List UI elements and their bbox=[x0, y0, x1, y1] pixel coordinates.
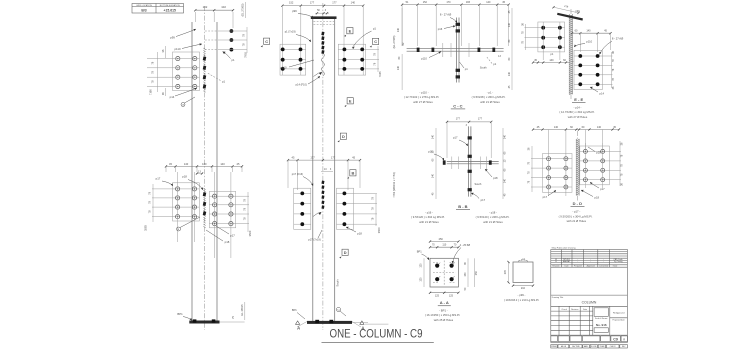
svg-text:177: 177 bbox=[478, 118, 483, 121]
svg-text:p17: p17 bbox=[481, 198, 486, 202]
svg-text:AABL: AABL bbox=[584, 345, 588, 348]
strip2 mid left bolt dots 1x4 bbox=[294, 192, 311, 194]
section E-E left extension verticals bbox=[542, 22, 544, 60]
strip1 mid right bolt group circles 2x4 bbox=[209, 195, 249, 197]
svg-text:p1: p1 bbox=[550, 52, 553, 56]
weld flag symbol strip1 bbox=[181, 103, 185, 107]
anchor bolts strip2 base bbox=[315, 320, 319, 323]
section D-D centerline bbox=[577, 131, 579, 139]
svg-text:140: 140 bbox=[351, 0, 356, 4]
svg-text:p17: p17 bbox=[543, 195, 548, 199]
svg-text:with 25 Ø Holes: with 25 Ø Holes bbox=[434, 318, 454, 322]
svg-text:140: 140 bbox=[554, 126, 559, 129]
web bolt diamonds strip2 top bbox=[321, 32, 324, 36]
svg-text:p99: p99 bbox=[292, 9, 297, 13]
title underline bbox=[322, 341, 434, 343]
svg-text:p1 (7x19): p1 (7x19) bbox=[285, 30, 296, 34]
detail A-A left dims 125 125 bbox=[423, 258, 425, 287]
svg-text:( 9.5X260 ) x 304 Lg MS.Pl.: ( 9.5X260 ) x 304 Lg MS.Pl. bbox=[559, 214, 593, 218]
section C-C right dim chain bbox=[511, 8, 513, 90]
section B-B horizontal member bbox=[447, 161, 499, 163]
svg-text:D: D bbox=[344, 250, 347, 255]
svg-text:B - B: B - B bbox=[458, 204, 467, 209]
detail A-A dims 70 110 70 bbox=[430, 246, 458, 248]
strip2 mid dim extension lines bbox=[287, 160, 289, 188]
svg-text:- BP1 -: - BP1 - bbox=[439, 309, 448, 313]
svg-text:DAY.TIME: DAY.TIME bbox=[572, 345, 580, 348]
strip1 top bolt group row lines to left dim chain bbox=[147, 58, 200, 60]
svg-text:with 21 Ø Holes: with 21 Ø Holes bbox=[480, 100, 500, 104]
svg-text:(EL.27565): (EL.27565) bbox=[392, 35, 396, 48]
strip2 top left bolt group box bbox=[280, 44, 306, 75]
detail p99 dim 210 bbox=[513, 285, 533, 287]
strip1 mid left bolt group box bbox=[173, 183, 200, 221]
revision table columns bbox=[560, 250, 562, 268]
svg-text:+15.615: +15.615 bbox=[164, 9, 176, 13]
svg-text:Proposed date: Proposed date bbox=[612, 319, 624, 322]
column centerline strip1 bbox=[204, 6, 206, 330]
section D-D left circles extension verticals bbox=[548, 150, 550, 196]
svg-text:( 10X203.2 ) x 210 Lg MS.Pl.: ( 10X203.2 ) x 210 Lg MS.Pl. bbox=[504, 298, 540, 302]
svg-text:177: 177 bbox=[331, 156, 336, 160]
section B-B right dim chain bbox=[502, 128, 504, 199]
svg-text:Scale & Forms: Scale & Forms bbox=[595, 317, 607, 320]
svg-text:p18: p18 bbox=[595, 196, 600, 200]
section B-B web bolts on vertical member bbox=[468, 136, 472, 139]
svg-text:152: 152 bbox=[423, 1, 428, 4]
web bolt diamonds strip1 top group bbox=[203, 56, 207, 60]
svg-text:p18: p18 bbox=[182, 175, 187, 179]
svg-text:Trg Timing: Trg Timing bbox=[614, 260, 623, 263]
section C-C horizontal member bbox=[407, 48, 504, 50]
svg-text:- p99 -: - p99 - bbox=[518, 293, 526, 297]
svg-text:with 21 Ø Holes: with 21 Ø Holes bbox=[567, 219, 587, 223]
svg-text:( 12.7X102 ) x 278 Lg MS.Pl.: ( 12.7X102 ) x 278 Lg MS.Pl. bbox=[404, 95, 440, 99]
svg-text:177: 177 bbox=[456, 118, 461, 121]
strip2 mid web bolt diamonds on centerline bbox=[321, 181, 324, 185]
section C-C flange bolts on horizontal member bbox=[417, 48, 420, 52]
svg-text:7166: 7166 bbox=[149, 89, 153, 95]
section D-D extension verticals bbox=[548, 130, 550, 151]
svg-text:140: 140 bbox=[586, 29, 591, 32]
section C-C left dim chain bbox=[401, 8, 403, 46]
svg-text:E: E bbox=[349, 28, 352, 33]
svg-text:p17: p17 bbox=[230, 234, 235, 238]
strip1 left dim labels 78 bbox=[164, 46, 166, 58]
svg-text:Drawing Title: Drawing Title bbox=[552, 296, 564, 299]
svg-text:p110: p110 bbox=[280, 66, 286, 70]
detail A-A dim 250 top bbox=[430, 241, 458, 243]
weld flag strip1 mid bbox=[177, 227, 181, 231]
section D-D center member hatched bbox=[575, 139, 577, 196]
svg-text:CHECK: CHECK bbox=[610, 346, 617, 348]
section B-B left dim chain bbox=[435, 128, 437, 199]
section B-B stiffener ticks bbox=[451, 157, 453, 170]
strip1 top right stiffener dots column bbox=[230, 29, 234, 33]
section E-E bottom dim 45 140 60 bbox=[533, 62, 572, 64]
svg-text:177: 177 bbox=[332, 0, 337, 4]
weld arrow strip2 mid bbox=[318, 212, 321, 215]
section B-B extension verticals bbox=[446, 122, 448, 158]
svg-text:210: 210 bbox=[521, 287, 526, 290]
strip1 mid right bolt group box bbox=[209, 191, 235, 227]
svg-text:140: 140 bbox=[432, 134, 435, 139]
svg-text:AAB3AT: AAB3AT bbox=[563, 260, 571, 263]
strip2 top dim extension lines bbox=[281, 6, 283, 75]
svg-text:140: 140 bbox=[549, 59, 554, 62]
svg-text:ONE - COLUMN - C9: ONE - COLUMN - C9 bbox=[330, 328, 423, 341]
section marker C left bbox=[264, 38, 270, 44]
section E-E centerline bbox=[570, 9, 572, 14]
column centerline strip2 bbox=[322, 3, 324, 330]
section B-B top dimension 177 177 bbox=[447, 121, 491, 123]
section marker A right bbox=[360, 321, 364, 324]
strip2 mid left bolt group box bbox=[294, 188, 311, 229]
svg-text:File Approved: File Approved bbox=[613, 312, 625, 315]
svg-text:South: South bbox=[480, 65, 487, 69]
svg-text:BP1: BP1 bbox=[417, 250, 422, 254]
strip1 top bolt group left - open circles 2x4 bbox=[173, 52, 200, 91]
strip1 mid left bolt group circles 2x4 bbox=[152, 188, 199, 190]
section E-E left bolt dots 2x3 bbox=[525, 27, 565, 29]
section E-E right bolt dots 2x4 bbox=[574, 55, 613, 57]
svg-text:p1: p1 bbox=[493, 62, 496, 66]
svg-text:177: 177 bbox=[310, 156, 315, 160]
cap plate strip2 bbox=[311, 16, 337, 19]
svg-text:140: 140 bbox=[508, 22, 511, 27]
svg-text:p17 (F16): p17 (F16) bbox=[292, 172, 303, 176]
svg-text:EL.15615: EL.15615 bbox=[240, 304, 244, 316]
svg-text:South: South bbox=[475, 182, 482, 186]
svg-text:E: E bbox=[349, 98, 352, 103]
svg-text:E - E: E - E bbox=[574, 97, 583, 102]
weld arrow strip2 centerline bbox=[319, 72, 322, 75]
strip2 top left bolt dots 2x3 bbox=[280, 48, 306, 50]
svg-text:250: 250 bbox=[475, 271, 478, 276]
svg-text:R: R bbox=[623, 337, 625, 341]
svg-text:p14: p14 bbox=[170, 95, 175, 99]
dimension 102/102 top of strip1 bbox=[194, 12, 196, 22]
section E-E angled cap plate p99 bbox=[557, 13, 583, 21]
svg-text:GRID LOCATION: GRID LOCATION bbox=[136, 4, 152, 7]
svg-text:3500: 3500 bbox=[248, 230, 252, 236]
base slope lines strip2 bbox=[297, 322, 307, 328]
detail A-A anchor bolts bbox=[435, 264, 439, 268]
weld seam slashes centerline strip1 mid group bbox=[203, 188, 205, 190]
svg-text:p110: p110 bbox=[586, 39, 592, 43]
svg-text:- p18 -: - p18 - bbox=[489, 210, 497, 214]
section D-D left bolt group box bbox=[543, 154, 573, 193]
section D-D left dim chain bbox=[531, 146, 533, 192]
svg-text:7045: 7045 bbox=[378, 71, 382, 77]
title block footer tiny boxes bbox=[551, 345, 557, 348]
svg-text:140: 140 bbox=[486, 1, 491, 4]
svg-text:with 27 Ø Holes: with 27 Ø Holes bbox=[413, 100, 433, 104]
svg-text:p17: p17 bbox=[156, 177, 161, 181]
svg-text:183: 183 bbox=[466, 1, 471, 4]
section marker A left bbox=[296, 321, 300, 324]
svg-text:160: 160 bbox=[202, 162, 207, 166]
svg-text:B: B bbox=[351, 170, 354, 175]
svg-text:3583: 3583 bbox=[144, 225, 148, 231]
svg-text:- p16 -: - p16 - bbox=[425, 210, 433, 214]
strip2 top right bolt dots 2x3 bbox=[338, 48, 379, 50]
section E-E right top dim 60 140 45 bbox=[572, 32, 611, 34]
svg-text:Check: Check bbox=[561, 309, 566, 311]
section D-D right bolt circles 2x4 bbox=[580, 150, 621, 152]
svg-text:140: 140 bbox=[220, 162, 225, 166]
svg-text:125: 125 bbox=[420, 263, 423, 268]
svg-text:p14 (F10): p14 (F10) bbox=[296, 83, 307, 87]
svg-text:BOTTOM ELEVATION: BOTTOM ELEVATION bbox=[160, 4, 181, 7]
column C9 front elevation left flange line bbox=[191, 22, 193, 321]
weld squiggle strip2 centerline bbox=[321, 53, 324, 76]
detail p99 dim 205 bbox=[508, 262, 510, 283]
section D-D right dim chain bbox=[619, 141, 621, 186]
svg-text:Revision: Revision bbox=[552, 266, 559, 268]
detail A-A bottom dims 125 125 bbox=[430, 292, 458, 294]
svg-text:150: 150 bbox=[464, 272, 467, 277]
section E-E right extension verticals bbox=[579, 33, 581, 52]
svg-text:p99: p99 bbox=[521, 257, 526, 261]
section marker D lower bbox=[342, 249, 348, 255]
column C9 side elevation left line bbox=[312, 19, 314, 323]
revision table rows bbox=[551, 251, 628, 253]
svg-text:AB.GB: AB.GB bbox=[561, 345, 567, 348]
svg-text:125: 125 bbox=[420, 277, 423, 282]
svg-text:C: C bbox=[265, 39, 268, 44]
svg-text:Prepared: Prepared bbox=[574, 265, 582, 268]
svg-text:Shop Fabrication Drawing: Shop Fabrication Drawing bbox=[552, 246, 577, 249]
section D-D right circles extension verticals bbox=[584, 143, 586, 188]
cap plate hidden lines bbox=[314, 21, 335, 23]
svg-text:152: 152 bbox=[289, 0, 294, 4]
drawing title cell bbox=[551, 294, 628, 296]
svg-text:B.LINE: B.LINE bbox=[591, 346, 597, 348]
svg-text:p17: p17 bbox=[600, 187, 605, 191]
strip2 right dim chain top bbox=[377, 46, 379, 72]
svg-text:(EL.27565): (EL.27565) bbox=[241, 3, 245, 16]
svg-text:BP1: BP1 bbox=[292, 308, 297, 312]
strip1 mid left extension verticals bbox=[177, 172, 179, 242]
svg-text:( 9.5X228 ) x 260 Lg MS.Pl.: ( 9.5X228 ) x 260 Lg MS.Pl. bbox=[472, 95, 506, 99]
detail A-A right dims 90 150 250 50 bbox=[467, 258, 469, 287]
web bolt diamonds strip1 mid group bbox=[203, 192, 207, 196]
svg-text:( 9.5X120 ) x 304 Lg MS.Pl.: ( 9.5X120 ) x 304 Lg MS.Pl. bbox=[411, 215, 445, 219]
svg-text:p18: p18 bbox=[596, 150, 601, 154]
section D-D right bolt group box bbox=[580, 146, 610, 185]
column C9 front elevation right flange line bbox=[216, 22, 218, 321]
svg-text:p1: p1 bbox=[231, 58, 235, 62]
strip1 mid right extension verticals bbox=[214, 172, 216, 258]
section C-C web bolts on vertical member bbox=[456, 23, 460, 26]
svg-text:140: 140 bbox=[397, 65, 400, 70]
svg-text:p16: p16 bbox=[438, 27, 443, 31]
title block middle scale box bbox=[609, 306, 611, 335]
section marker E upper bbox=[347, 28, 353, 34]
section marker C right bbox=[373, 38, 379, 44]
svg-text:140: 140 bbox=[432, 173, 435, 178]
svg-text:p1: p1 bbox=[373, 27, 377, 31]
svg-text:p110: p110 bbox=[421, 57, 427, 61]
svg-text:Initial: Initial bbox=[613, 265, 618, 268]
svg-text:140: 140 bbox=[397, 27, 400, 32]
svg-text:C9: C9 bbox=[613, 337, 618, 341]
detail p99 plate outline bbox=[513, 262, 533, 283]
svg-text:140: 140 bbox=[504, 134, 507, 139]
section E-E angled dim 219 bbox=[554, 7, 579, 13]
section marker B strip2 bbox=[350, 170, 356, 176]
svg-text:p1: p1 bbox=[465, 67, 468, 71]
section E-E right bolt group box bbox=[574, 50, 602, 89]
section D-D top dimension 45 140 60 60 140 45 bbox=[533, 129, 619, 131]
svg-text:- p14 -: - p14 - bbox=[574, 106, 582, 110]
svg-text:C: C bbox=[374, 39, 377, 44]
section E-E vertical member hatched bbox=[568, 14, 570, 94]
strip2 mid right bolt dots 1x4 bbox=[337, 192, 378, 194]
anchor bolts strip1 base bbox=[193, 319, 197, 322]
svg-text:South: South bbox=[336, 279, 340, 287]
svg-text:p17: p17 bbox=[453, 135, 458, 139]
svg-text:125: 125 bbox=[435, 295, 440, 298]
svg-text:with 21 Ø Holes: with 21 Ø Holes bbox=[419, 220, 439, 224]
svg-text:( 9.5X120 ) x 228 Lg MS.Pl.: ( 9.5X120 ) x 228 Lg MS.Pl. bbox=[476, 215, 510, 219]
section B-B vertical member bbox=[468, 126, 470, 196]
section B-B flange bolts on horizontal member bbox=[443, 160, 446, 164]
svg-text:140: 140 bbox=[508, 71, 511, 76]
svg-text:STAND: STAND bbox=[551, 345, 557, 348]
detail A-A hidden column section cross bbox=[433, 272, 456, 274]
svg-text:- p17 -: - p17 - bbox=[572, 210, 580, 214]
svg-text:8 - 27 AØ: 8 - 27 AØ bbox=[612, 36, 623, 40]
svg-text:177: 177 bbox=[310, 0, 315, 4]
title block outer border bbox=[551, 250, 628, 343]
section E-E right dim chain bbox=[611, 52, 613, 88]
section E-E left bolt group box bbox=[538, 22, 565, 52]
svg-text:p18: p18 bbox=[225, 240, 230, 244]
svg-text:7763 (W8X31 x 7754): 7763 (W8X31 x 7754) bbox=[392, 172, 396, 197]
svg-text:with 21 Ø Holes: with 21 Ø Holes bbox=[483, 220, 503, 224]
svg-text:3500: 3500 bbox=[377, 227, 381, 233]
svg-text:D - D: D - D bbox=[573, 201, 582, 206]
title block left grid rows bbox=[551, 310, 593, 312]
strip2 top right bolt group box bbox=[338, 44, 365, 75]
svg-text:p110: p110 bbox=[174, 47, 180, 51]
svg-text:102: 102 bbox=[221, 5, 226, 9]
strip1 mid dimension line 45 140 160 140 45 bbox=[166, 165, 242, 167]
title block left grid columns bbox=[558, 306, 560, 335]
svg-text:C - C: C - C bbox=[453, 103, 462, 108]
svg-text:p17 (7x19): p17 (7x19) bbox=[308, 238, 321, 242]
base plate BP1 strip1 elevation bbox=[189, 321, 219, 324]
svg-text:p18: p18 bbox=[357, 231, 362, 235]
svg-text:102: 102 bbox=[203, 5, 208, 9]
detail A-A plate outline bbox=[430, 258, 458, 287]
title block bottom strip boxes bbox=[551, 334, 628, 336]
strip2 mid right bolt group box bbox=[337, 188, 354, 229]
strip2 mid right dim chain bbox=[375, 194, 377, 226]
svg-text:COLUMN: COLUMN bbox=[582, 301, 597, 305]
info table top-left bbox=[132, 4, 184, 14]
column C9 side elevation right line bbox=[334, 19, 336, 323]
section marker D upper bbox=[340, 133, 346, 139]
strip1 mid dim extension lines bbox=[165, 166, 167, 172]
svg-text:Revision: Revision bbox=[571, 309, 578, 311]
svg-text:- p1 -: - p1 - bbox=[487, 90, 494, 94]
svg-text:Approved: Approved bbox=[587, 265, 595, 268]
svg-text:205: 205 bbox=[504, 270, 507, 275]
section D-D left bolt circles 2x4 bbox=[531, 158, 572, 160]
svg-text:140: 140 bbox=[597, 126, 602, 129]
svg-text:BP1: BP1 bbox=[177, 312, 183, 316]
svg-text:p14: p14 bbox=[600, 91, 605, 95]
section E-E far left dim chain bbox=[525, 24, 527, 50]
svg-text:A - A: A - A bbox=[440, 300, 449, 305]
svg-text:Consented: Consented bbox=[599, 265, 608, 268]
svg-text:Date: Date bbox=[565, 265, 569, 268]
svg-text:with 27 Ø Holes: with 27 Ø Holes bbox=[568, 115, 588, 119]
svg-text:- p110 -: - p110 - bbox=[419, 90, 428, 94]
strip2 top dimension 152 177 177 140 bbox=[282, 5, 363, 7]
strip1 mid left dim chain bbox=[152, 184, 154, 222]
svg-text:4 - 25.5Ø: 4 - 25.5Ø bbox=[460, 244, 470, 247]
section C-C top dimension 51 152 170 183 140 45 bbox=[402, 4, 509, 6]
section marker E lower bbox=[347, 98, 353, 104]
section C-C stiffener tick marks bbox=[442, 43, 444, 57]
svg-text:125: 125 bbox=[449, 295, 454, 298]
svg-text:TRAM: TRAM bbox=[600, 345, 605, 348]
svg-text:7902: 7902 bbox=[244, 52, 248, 58]
svg-text:B/3: B/3 bbox=[141, 9, 146, 13]
svg-text:( 12.7X260 ) x 304 Lg MS.Pl.: ( 12.7X260 ) x 304 Lg MS.Pl. bbox=[559, 110, 595, 114]
svg-text:250: 250 bbox=[439, 238, 444, 241]
weld flag strip2 base bbox=[336, 307, 340, 311]
svg-text:p99: p99 bbox=[575, 10, 580, 13]
svg-text:140: 140 bbox=[504, 178, 507, 183]
svg-text:Date: Date bbox=[583, 308, 587, 311]
strip2 mid dimension 45 177 177 45 bbox=[288, 159, 360, 161]
svg-text:No. 916: No. 916 bbox=[596, 323, 607, 327]
svg-text:110: 110 bbox=[442, 244, 446, 247]
svg-text:A: A bbox=[297, 326, 300, 331]
svg-text:p1: p1 bbox=[222, 79, 226, 83]
section C-C extension verticals bbox=[401, 5, 403, 46]
svg-text:170: 170 bbox=[446, 1, 451, 4]
svg-text:p18: p18 bbox=[493, 176, 498, 180]
svg-text:p99: p99 bbox=[170, 36, 175, 40]
svg-text:140: 140 bbox=[184, 162, 189, 166]
strip1 right dim chain top bbox=[246, 27, 248, 53]
strip1 mid right dim chain bbox=[247, 192, 249, 232]
svg-text:8 - 27 AØ: 8 - 27 AØ bbox=[440, 13, 451, 17]
base plate strip2 elevation bbox=[307, 321, 352, 324]
svg-text:D: D bbox=[342, 134, 345, 139]
svg-text:p16: p16 bbox=[428, 149, 433, 153]
weld seam slashes centerline strip1 top group bbox=[203, 48, 205, 50]
svg-text:( 16.1X250 ) x 250 Lg MS.Pl.: ( 16.1X250 ) x 250 Lg MS.Pl. bbox=[425, 313, 461, 317]
section C-C vertical member bbox=[456, 18, 458, 83]
